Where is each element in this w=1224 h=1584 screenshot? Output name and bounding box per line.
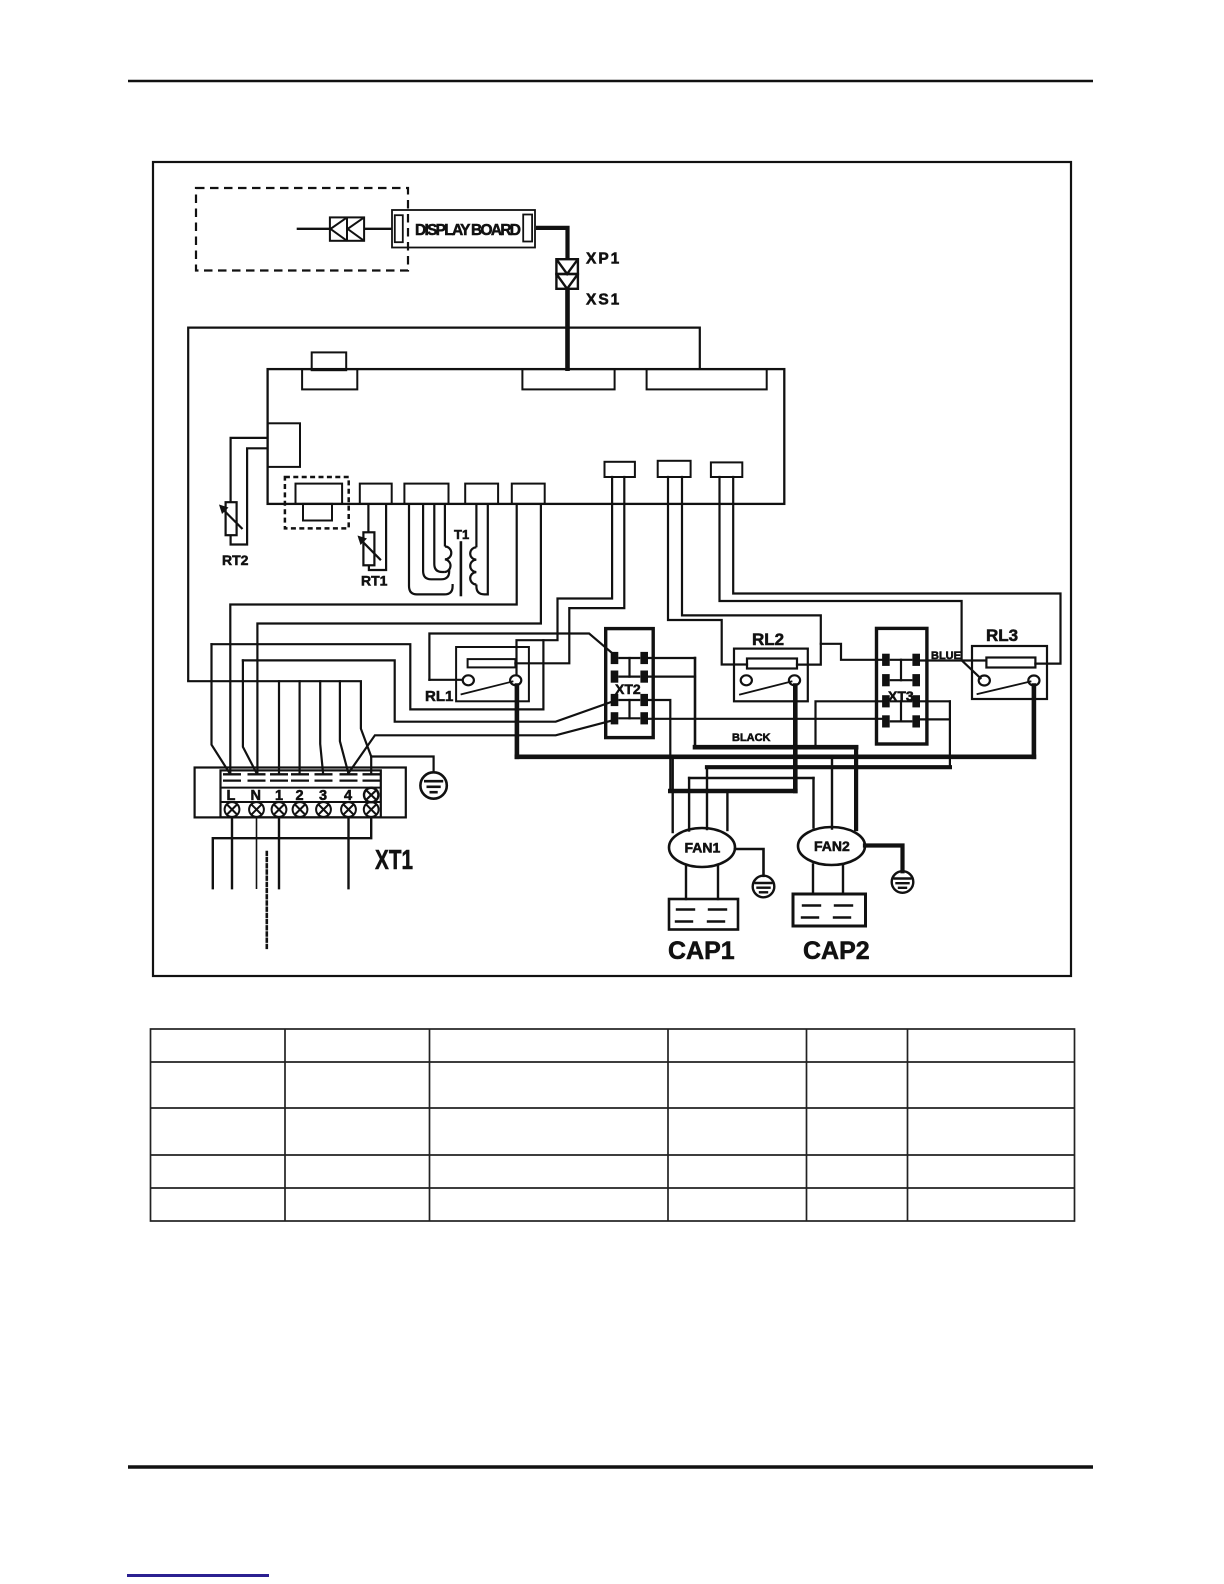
wire live bus to FAN1 bbox=[672, 757, 674, 832]
main control board U1 bbox=[268, 369, 785, 504]
wire earth bus to XT1-1 bbox=[278, 681, 280, 773]
capacitor CAP2 bbox=[793, 894, 866, 926]
svg-text:CAP1: CAP1 bbox=[668, 937, 735, 965]
transformer T1 secondary top wire bbox=[475, 505, 477, 548]
wire XT3 row3 left to black bus bbox=[816, 701, 883, 747]
top horizontal rule bbox=[128, 80, 1093, 83]
wire earth to ground symbol bbox=[371, 757, 433, 772]
board bottom tab C (T1 secondary) bbox=[465, 484, 498, 504]
diagram frame bbox=[153, 162, 1071, 976]
wire RL1 left contact to XT2 row1 bbox=[429, 634, 612, 680]
wire bus2 to FAN1 bbox=[706, 767, 708, 829]
XT1 screw L bbox=[225, 802, 240, 817]
earth loop wire from frame area to board connector bbox=[188, 328, 700, 682]
relay RL2 contact right bbox=[789, 675, 800, 685]
svg-text:T1: T1 bbox=[454, 527, 469, 542]
XT1 terminal slots bbox=[223, 773, 241, 775]
wire L2 drop to XT1-L bbox=[212, 644, 230, 773]
wire XT2 rows1-2 down to black bus bbox=[694, 658, 697, 747]
wire earth bus to XT1-2 bbox=[299, 681, 301, 773]
svg-text:XT2: XT2 bbox=[615, 681, 641, 697]
relay RL2 switch arm bbox=[740, 682, 792, 695]
wire connector to display board bbox=[364, 228, 392, 230]
wire earth bus to XT1-3 bbox=[320, 681, 323, 773]
svg-text:RL1: RL1 bbox=[425, 688, 453, 705]
wire RL1 coil to board connector E pin2 bbox=[515, 477, 624, 663]
XT3 row links bbox=[891, 660, 912, 722]
relay RL2 box bbox=[734, 649, 808, 702]
board connector F (RL2) bbox=[658, 461, 691, 477]
table outer border bbox=[151, 1029, 1075, 1221]
connector XP1 bbox=[556, 259, 578, 274]
wire board G pin1 to RL3 left contact (blue) bbox=[720, 477, 981, 678]
black bus wire bbox=[695, 745, 856, 750]
board bottom tab B (T1 primary) bbox=[404, 484, 448, 504]
relay RL2 coil bbox=[747, 659, 797, 669]
svg-text:3: 3 bbox=[319, 788, 327, 804]
XT2 row links bbox=[619, 658, 639, 718]
svg-text:CAP2: CAP2 bbox=[803, 937, 870, 965]
mains lead 4 bbox=[347, 817, 349, 888]
table row line 3 bbox=[151, 1154, 1075, 1156]
terminal block XT1 outer bbox=[195, 768, 406, 818]
wire XT2 row1 right bbox=[649, 657, 695, 659]
wire RT2 return bbox=[231, 448, 268, 544]
capacitor CAP1 bbox=[669, 899, 738, 930]
relay RL3 coil bbox=[986, 658, 1035, 668]
wire into connector X1 bbox=[297, 228, 330, 230]
wire XT3 row3 right bbox=[921, 700, 950, 702]
wire N2 drop to XT1-N bbox=[243, 660, 257, 773]
wire live bus to FAN2 bbox=[831, 757, 833, 829]
mains lead N bbox=[256, 817, 258, 888]
transformer T1 secondary bottom wire bbox=[476, 505, 487, 595]
wire bus4 to FAN1 bbox=[726, 791, 728, 830]
wire FAN1 to ground bbox=[735, 849, 764, 876]
wire RL2 right contact to fan bus (thick) bbox=[793, 686, 798, 792]
live bus wire RL1-RL3 bbox=[517, 754, 1034, 759]
relay RL2 contact left bbox=[741, 675, 752, 685]
board top bump connector bbox=[312, 352, 347, 370]
mains lead L bbox=[231, 817, 233, 888]
svg-text:XT3: XT3 bbox=[888, 688, 914, 704]
transformer T1 primary bottom wire bbox=[434, 505, 445, 572]
wire display board to XP1 bbox=[536, 228, 568, 259]
svg-text:RT1: RT1 bbox=[361, 573, 388, 589]
wire XT3 rows down to fan bus bbox=[949, 701, 951, 767]
board bottom tab D (mains L/N) bbox=[512, 484, 545, 504]
board connector E (RL1) bbox=[605, 462, 635, 477]
wire RT1 return bbox=[369, 505, 386, 570]
table column line 4 bbox=[806, 1029, 808, 1221]
wire L: board tab D pin1 to XT1-L bbox=[230, 505, 516, 774]
wire N2: XT1-N to XT2 row3 bbox=[243, 660, 613, 721]
transformer T1 primary top wire bbox=[444, 505, 446, 547]
wire board F pin1 to RL2 coil left bbox=[668, 477, 747, 665]
table column line 2 bbox=[429, 1029, 431, 1221]
wire board F pin2 to RL2 coil right bbox=[682, 477, 821, 665]
board top connector J3 bbox=[647, 369, 767, 389]
transformer T1 secondary winding bbox=[470, 547, 476, 584]
wire N: board tab D pin2 to XT1-N bbox=[257, 505, 541, 774]
wire earth bus to XT1-4 bbox=[340, 681, 348, 773]
wire FAN1 to CAP1 pin2 bbox=[717, 866, 719, 899]
svg-text:FAN2: FAN2 bbox=[814, 838, 850, 854]
wire bus3 to FAN1 bbox=[688, 778, 690, 831]
wire XT2 row4 to XT3 row4 bbox=[649, 718, 884, 720]
mains lead 1 bbox=[278, 817, 280, 888]
ground symbol near XT1 bbox=[420, 772, 446, 798]
XT3 pins right bbox=[913, 654, 920, 665]
display board U2 bbox=[392, 210, 535, 248]
svg-text:RL3: RL3 bbox=[986, 626, 1018, 645]
wire FAN2 to CAP2 pin1 bbox=[812, 865, 814, 895]
XT1 screw N bbox=[249, 802, 264, 817]
relay RL3 switch arm bbox=[978, 682, 1031, 695]
transformer T1 hook wire 1 bbox=[423, 505, 449, 580]
wire L2: XT1-L to RL1 common loop bbox=[212, 640, 544, 709]
wire black bus to FAN2 bbox=[854, 747, 858, 829]
dashed option connector box bbox=[285, 477, 349, 528]
fan bus wire 2 bbox=[707, 765, 950, 769]
earth lead bbox=[213, 817, 371, 888]
board bottom tab A (RT1) bbox=[360, 484, 392, 504]
wire board G pin2 to RL3 coil right bbox=[733, 477, 1060, 664]
table column line 1 bbox=[284, 1029, 286, 1221]
RT2 arrow bbox=[221, 508, 243, 530]
wire FAN2 to ground (thick) bbox=[865, 846, 903, 872]
table row line 4 bbox=[151, 1187, 1075, 1189]
svg-text:XT1: XT1 bbox=[375, 844, 413, 875]
terminal block XT3 bbox=[877, 628, 927, 744]
svg-text:BLACK: BLACK bbox=[732, 732, 771, 744]
relay RL3 contact right bbox=[1028, 676, 1039, 686]
terminal block XT2 bbox=[606, 629, 654, 738]
XT1 earth mark bbox=[364, 788, 378, 802]
transformer T1 core bbox=[460, 541, 463, 596]
wire XT1-E drop bbox=[370, 757, 372, 774]
XT2 pins left bbox=[611, 652, 618, 663]
XT1 screw 4 bbox=[341, 802, 356, 817]
relay RL3 box bbox=[972, 646, 1047, 699]
svg-text:L: L bbox=[227, 788, 236, 804]
board left connector J4 bbox=[268, 423, 300, 467]
dotted cable line bbox=[265, 852, 268, 950]
wire tab A to RT1 bbox=[367, 505, 369, 533]
wire RL1 right contact to live bus (thick) bbox=[515, 686, 520, 757]
RT1 arrow bbox=[360, 539, 381, 561]
XT1 screw 1 bbox=[272, 802, 287, 817]
wire XT1-4 to XT2 row4 bbox=[349, 720, 615, 773]
fan bus wire 4 bbox=[670, 789, 795, 794]
XT1 screw 2 bbox=[293, 802, 308, 817]
svg-text:2: 2 bbox=[296, 788, 304, 804]
ground symbol at FAN2 bbox=[892, 871, 914, 893]
wire XT2 row3 right to fan bus bbox=[649, 700, 670, 791]
wire XT3 row1 right to RL3 coil bbox=[921, 659, 986, 661]
earth bus wire bbox=[188, 681, 371, 756]
table column line 3 bbox=[667, 1029, 669, 1221]
board top connector J2 bbox=[522, 369, 614, 389]
wire FAN2 to CAP2 pin2 bbox=[842, 865, 844, 895]
transformer T1 hook wire 2 bbox=[409, 505, 453, 595]
wire XT2 row2 right bbox=[649, 675, 695, 677]
svg-text:N: N bbox=[251, 788, 261, 804]
connector XS1 bbox=[556, 274, 578, 289]
table column line 5 bbox=[907, 1029, 909, 1221]
relay RL3 contact left bbox=[979, 676, 990, 686]
fan bus wire 3 bbox=[689, 777, 813, 779]
transformer T1 primary winding bbox=[445, 547, 451, 573]
relay RL1 box bbox=[456, 647, 529, 701]
wire RL3 right contact to live bus (thick) bbox=[1032, 686, 1037, 757]
dashed remote-unit box bbox=[196, 188, 408, 271]
svg-text:1: 1 bbox=[275, 788, 283, 804]
wire tap to XT3 row1 bbox=[821, 644, 884, 660]
svg-text:FAN1: FAN1 bbox=[685, 840, 721, 856]
fan motor FAN1 bbox=[669, 828, 735, 867]
footer navy link line bbox=[127, 1574, 269, 1577]
XT1 screw 3 bbox=[316, 802, 331, 817]
svg-text:XP1: XP1 bbox=[586, 251, 621, 268]
wire XT3 row4 right bbox=[921, 718, 950, 720]
connector X1 (double plug) bbox=[330, 217, 364, 240]
table row line 1 bbox=[151, 1061, 1075, 1063]
wire board to RT2 upper bbox=[231, 438, 268, 502]
relay RL1 coil bbox=[468, 659, 516, 667]
wire FAN1 to CAP1 pin1 bbox=[685, 866, 687, 899]
fan motor FAN2 bbox=[798, 827, 865, 865]
terminal block XT1 inner bbox=[221, 770, 381, 817]
thermistor RT1 body bbox=[363, 532, 374, 565]
svg-text:XS1: XS1 bbox=[586, 292, 621, 309]
svg-text:RT2: RT2 bbox=[222, 552, 249, 568]
XT2 pins right bbox=[641, 652, 648, 663]
relay RL1 contact right bbox=[510, 675, 521, 685]
wire bus3 to FAN2 bbox=[812, 778, 814, 828]
svg-text:4: 4 bbox=[344, 788, 352, 804]
svg-text:DISPLAY BOARD: DISPLAY BOARD bbox=[415, 222, 521, 239]
XT1 screw E bbox=[364, 802, 379, 817]
thermistor RT2 body bbox=[226, 502, 237, 535]
relay RL1 contact left bbox=[463, 675, 474, 685]
ground symbol at FAN1 bbox=[753, 876, 775, 898]
wire RL1 right contact to board connector E pin1 bbox=[517, 477, 613, 675]
wire XS1 to control board bbox=[565, 289, 570, 371]
table row line 2 bbox=[151, 1107, 1075, 1109]
board connector G (RL3) bbox=[711, 462, 742, 477]
bottom horizontal rule bbox=[128, 1465, 1093, 1469]
svg-text:RL2: RL2 bbox=[752, 630, 784, 649]
relay RL1 switch arm bbox=[462, 682, 513, 695]
XT3 pins left bbox=[883, 654, 890, 665]
svg-text:BLUE: BLUE bbox=[931, 650, 961, 662]
